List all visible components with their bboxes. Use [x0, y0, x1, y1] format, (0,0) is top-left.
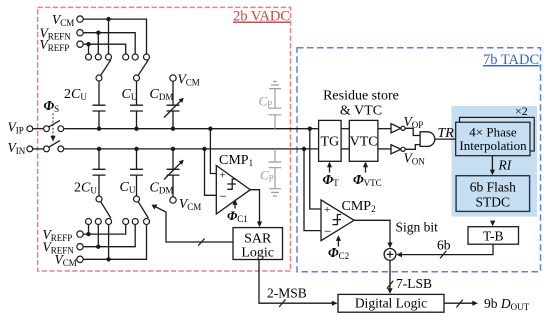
svg-text:2b VADC: 2b VADC	[233, 9, 290, 25]
svg-text:+: +	[220, 170, 226, 182]
wire VCM top branch	[108, 19, 110, 54]
svg-text:& VTC: & VTC	[340, 104, 382, 119]
T-B block	[468, 227, 519, 245]
svg-text:−: −	[220, 189, 227, 204]
wire TG to VTC bottom	[341, 148, 349, 150]
switch contact row top	[86, 54, 92, 60]
svg-text:TR: TR	[438, 126, 455, 141]
arrowhead variable cap top	[179, 98, 184, 103]
arrowhead 7-LSB into digital logic	[387, 288, 392, 294]
wire VTC to inverter top	[378, 128, 391, 130]
switch contact row bottom	[86, 219, 92, 225]
wire VCM bottom branch	[108, 225, 110, 260]
wire CMP1 plus input	[210, 129, 216, 174]
junction dots VIP rail	[86, 17, 312, 262]
CMP1 clock symbol	[227, 179, 236, 189]
wire VREFP bottom horizontal	[83, 225, 125, 235]
arrowhead RI into STDC	[490, 170, 495, 176]
wire CMP2 minus input	[304, 149, 321, 231]
TG block	[319, 120, 342, 161]
terminal VIN	[27, 146, 33, 152]
junction dots VIN rail	[97, 147, 101, 151]
variable arrow CDM top	[164, 100, 182, 118]
wire VREFN top horizontal	[83, 33, 135, 54]
capacitor CU top stem and plates	[130, 81, 143, 129]
svg-text:−: −	[324, 224, 331, 239]
capacitor CDM top stem and plates	[167, 81, 180, 129]
arrowhead CMP1 to SAR	[257, 222, 262, 228]
adder	[384, 249, 396, 261]
wire TG to VTC top	[341, 128, 349, 130]
wire VREFP top horizontal	[83, 44, 125, 54]
clock arrow phiVTC	[365, 167, 367, 173]
terminal VREFN top	[77, 30, 83, 36]
svg-text:CMP1: CMP1	[219, 153, 253, 168]
Digital Logic block	[338, 294, 444, 312]
wire CMP1 output	[250, 190, 259, 223]
arrowhead phiS	[50, 136, 55, 142]
4x Phase Interpolation block (stacked)	[460, 117, 535, 151]
wire inverter VON to AND gate	[405, 145, 420, 150]
switch lever 2CU top	[101, 60, 111, 75]
wire VIN rail	[64, 148, 319, 150]
arrowhead 2-MSB into digital logic	[332, 301, 338, 306]
wire VCM top horizontal	[83, 19, 146, 54]
arrowhead phiT	[327, 162, 332, 168]
arrowhead sign bit into adder	[387, 243, 392, 249]
terminal VCM CDM top	[170, 75, 176, 81]
switch pole CU top	[134, 75, 140, 81]
inverter VON triangle	[391, 145, 401, 154]
svg-text:TG: TG	[320, 135, 339, 150]
wire VREFP top branch	[88, 44, 90, 54]
capacitor CDM bottom stem and plates	[167, 149, 180, 197]
wire T-B to adder 6b	[399, 244, 493, 254]
arrowhead SAR feedback	[152, 205, 158, 210]
terminal VREFP bottom	[77, 231, 83, 237]
open terminals and switch circles	[27, 16, 176, 263]
svg-text:7-LSB: 7-LSB	[396, 276, 432, 291]
2b VADC boundary box	[38, 7, 291, 271]
svg-text:Residue store: Residue store	[323, 89, 399, 104]
slash 7-LSB bus	[387, 281, 393, 289]
switch lever CU bottom	[138, 202, 148, 218]
switch pole CU bottom	[134, 196, 140, 202]
bus slash marks	[198, 239, 463, 308]
AND gate TR	[420, 132, 435, 147]
svg-text:STDC: STDC	[476, 195, 511, 210]
capacitor 2CU bottom stem and plates	[93, 149, 106, 196]
wire VREFN top branch	[97, 33, 99, 54]
wire SAR to digital logic 2-MSB	[259, 260, 334, 304]
variable arrow CDM bottom	[164, 162, 182, 180]
wire phase interpolation to STDC	[491, 156, 493, 171]
clock arrow phiC2	[337, 237, 339, 247]
arrowhead phiC1	[232, 199, 237, 205]
svg-text:Digital Logic: Digital Logic	[355, 296, 427, 311]
arrowheads	[50, 98, 495, 306]
6b Flash STDC block	[456, 176, 529, 212]
svg-text:CMP2: CMP2	[342, 199, 376, 214]
svg-text:6b: 6b	[437, 238, 451, 253]
wire SAR feedback	[156, 207, 233, 242]
capacitor 2CU top stem and plates	[93, 81, 106, 129]
clock arrow phiT	[329, 167, 331, 173]
junction dots bottom reference rails	[86, 232, 90, 236]
dotted control line phiS	[52, 114, 54, 137]
wire VTC to inverter bottom	[378, 148, 391, 150]
switch lever CU top	[138, 60, 148, 75]
wire VIP rail	[64, 128, 319, 130]
arrowhead STDC to T-B	[490, 221, 495, 227]
svg-text:RI: RI	[498, 158, 513, 173]
arrowhead output 9b	[472, 301, 478, 306]
switch lever sampling VIN	[49, 141, 60, 148]
wire VCM bottom horizontal	[83, 225, 146, 260]
CMP2 clock symbol	[333, 215, 342, 225]
SAR Logic block	[233, 228, 283, 260]
wire CMP2 output sign bit	[354, 220, 390, 243]
wire AND output TR	[435, 138, 456, 140]
op-amp CMP2 triangle	[321, 200, 354, 241]
svg-text:6b Flash: 6b Flash	[470, 180, 516, 195]
arrowhead phiVTC	[363, 162, 368, 168]
svg-text:Sign bit: Sign bit	[396, 220, 439, 235]
7b TADC boundary box	[297, 48, 541, 272]
wire CMP2 plus input	[310, 129, 321, 209]
svg-text:Logic: Logic	[241, 246, 274, 261]
wire VREFP bottom branch	[88, 225, 90, 235]
switch lever 2CU bottom	[101, 202, 111, 218]
svg-text:SAR: SAR	[244, 232, 272, 247]
inverter VOP triangle	[391, 124, 401, 133]
wire VIP terminal segment	[33, 128, 44, 130]
svg-text:×2: ×2	[515, 104, 528, 118]
svg-text:VTC: VTC	[350, 135, 378, 150]
terminal VREFP top	[77, 41, 83, 47]
op-amp CMP1 triangle	[216, 166, 250, 215]
slash 6b bus	[440, 251, 446, 259]
slash SAR feedback bus	[198, 239, 204, 246]
arrowhead variable cap bottom	[179, 160, 184, 165]
inverter output bubbles	[401, 126, 405, 151]
switch pole 2CU bottom	[96, 196, 102, 202]
TADC shaded block background	[452, 106, 538, 217]
svg-text:2-MSB: 2-MSB	[267, 286, 307, 301]
terminal VCM bottom	[77, 256, 83, 262]
wire VREFN bottom horizontal	[83, 225, 135, 247]
wire CMP1 minus input	[205, 149, 217, 195]
junction dots top reference rails	[106, 17, 110, 21]
arrowhead phiC2	[336, 235, 341, 241]
switch pole 2CU top	[96, 75, 102, 81]
terminal VIP	[27, 126, 33, 132]
terminal VCM CDM bottom	[170, 197, 176, 203]
terminal VCM top	[77, 16, 83, 22]
svg-text:+: +	[324, 204, 330, 216]
slash 2-MSB bus	[279, 299, 285, 307]
svg-text:T-B: T-B	[483, 229, 504, 244]
slash 9b output bus	[456, 300, 462, 308]
wire VREFN bottom branch	[97, 225, 99, 247]
wire adder to digital logic 7-LSB	[389, 260, 391, 290]
wire VIN terminal segment	[33, 148, 44, 150]
clock arrow phiC1	[234, 201, 236, 209]
capacitor CU bottom stem and plates	[130, 149, 143, 196]
svg-text:Interpolation: Interpolation	[459, 138, 527, 153]
terminal VREFN bottom	[77, 244, 83, 250]
switch lever sampling VIP	[49, 120, 60, 127]
wire inverter VOP to AND gate	[405, 128, 420, 135]
VTC block	[349, 120, 378, 161]
arrowhead 6b into adder	[396, 252, 402, 257]
svg-text:7b TADC: 7b TADC	[483, 52, 539, 68]
wire digital logic output	[444, 302, 473, 304]
parasitic capacitor CP bottom (gray)	[269, 149, 282, 196]
parasitic capacitor CP top (gray)	[269, 82, 282, 197]
